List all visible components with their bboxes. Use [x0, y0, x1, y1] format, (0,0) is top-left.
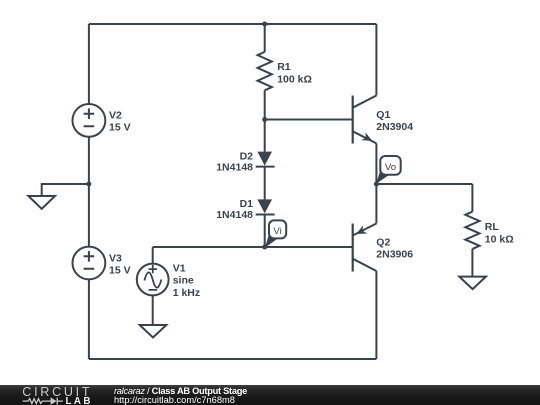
wire Q1 collector riser — [375, 24, 377, 96]
svg-text:Vi: Vi — [273, 226, 281, 237]
svg-text:1N4148: 1N4148 — [216, 161, 253, 173]
footer bar — [0, 385, 540, 405]
wire top +15V rail — [89, 23, 377, 25]
svg-text:sine: sine — [173, 275, 194, 287]
wire V1 top lead — [152, 247, 154, 264]
wire bottom rail — [89, 358, 377, 360]
transistor Q1 2N3904 — [353, 96, 377, 144]
junction dot Vi node — [262, 245, 267, 250]
wire V2 bottom to ground junction — [88, 137, 90, 184]
junction dot top rail — [262, 22, 267, 27]
svg-text:RL: RL — [485, 221, 500, 233]
wire Q1 base — [265, 119, 352, 121]
transistor Q2 2N3906 — [353, 224, 377, 272]
net flag Vi — [265, 220, 286, 247]
voltage source V2 — [73, 104, 106, 137]
svg-text:2N3904: 2N3904 — [376, 121, 413, 133]
wire RL top lead — [471, 184, 473, 212]
voltage source V3 — [73, 247, 106, 280]
svg-text:Q2: Q2 — [376, 236, 390, 248]
footer credit text — [114, 387, 247, 405]
wire Vo rail — [376, 183, 472, 185]
wire D1 to Vi node — [264, 215, 266, 248]
wire Q2 emitter from Vo — [375, 184, 377, 224]
wire RL bottom lead — [471, 249, 473, 277]
svg-text:Vo: Vo — [385, 162, 396, 173]
wire Q2 collector riser — [375, 271, 377, 359]
wire left rail V2 top — [88, 24, 90, 104]
wire V3 bottom to bottom rail — [88, 279, 90, 359]
wire Q1 emitter to Vo node — [375, 143, 377, 184]
ground G2 — [140, 325, 167, 338]
svg-text:V1: V1 — [173, 262, 186, 274]
CircuitLab logo — [0, 385, 100, 405]
resistor R1 — [258, 52, 272, 90]
svg-text:V2: V2 — [109, 110, 122, 122]
voltage source V1 sine — [137, 264, 169, 296]
svg-text:Q1: Q1 — [376, 109, 390, 121]
junction dot Vo node — [374, 182, 379, 187]
wire junction to V3 top — [88, 184, 90, 247]
diode D1 — [256, 199, 275, 214]
wire D2 to D1 — [264, 167, 266, 200]
ground G1 — [28, 196, 55, 209]
svg-text:2N3906: 2N3906 — [376, 249, 413, 261]
svg-text:V3: V3 — [109, 252, 122, 264]
svg-text:15 V: 15 V — [109, 122, 131, 134]
net flag Vo — [376, 156, 400, 184]
wire ground branch — [42, 184, 89, 196]
svg-text:10 kΩ: 10 kΩ — [485, 233, 514, 245]
svg-text:100 kΩ: 100 kΩ — [277, 74, 312, 86]
svg-text:15 V: 15 V — [109, 264, 131, 276]
junction dot base Q1 — [262, 117, 267, 122]
svg-text:1N4148: 1N4148 — [216, 209, 253, 221]
svg-text:R1: R1 — [277, 61, 291, 73]
wire R1 top lead — [264, 24, 266, 52]
svg-text:LAB: LAB — [66, 395, 93, 405]
junction dot left rail — [86, 182, 91, 187]
wire R1 bottom to D2 — [264, 90, 266, 151]
svg-text:1 kHz: 1 kHz — [173, 287, 200, 299]
ground G3 — [459, 277, 486, 290]
wire Vi rail — [153, 246, 352, 248]
diode D2 — [256, 152, 275, 167]
wire V1 bottom lead — [152, 295, 154, 325]
resistor RL — [465, 212, 479, 249]
